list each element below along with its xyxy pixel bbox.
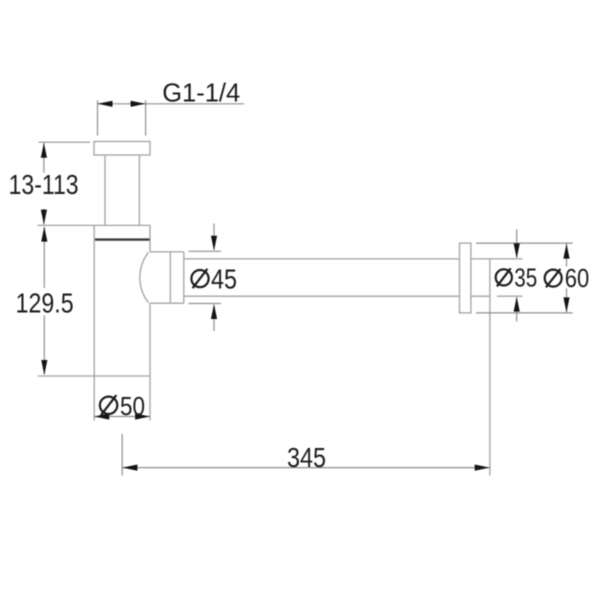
O60 bottom ext — [476, 312, 573, 314]
dark joint line on body — [95, 238, 150, 240]
pipe stub bottom right of flange — [471, 295, 490, 297]
O50 arrow right — [135, 413, 150, 419]
G1-1/4 arrow right — [131, 101, 146, 107]
G1-1/4 dim + leader — [98, 103, 245, 105]
129.5 vline upper — [43, 227, 45, 288]
O60 vline lower — [566, 289, 568, 313]
O45 top tick — [189, 250, 222, 252]
O60 arrow down — [563, 297, 569, 312]
O45 arrow down — [211, 236, 217, 251]
O35 symbol — [496, 269, 512, 285]
129.5 arrow up — [41, 227, 47, 242]
O35 vline lower — [516, 298, 518, 322]
inlet pipe left — [104, 155, 106, 225]
O35 vline upper — [516, 229, 518, 257]
svg-text:G1-1/4: G1-1/4 — [162, 77, 240, 107]
collar left — [169, 252, 171, 303]
O45 bottom tick — [189, 303, 222, 305]
pipe stub top right of flange + dim extension — [471, 258, 523, 260]
O50 symbol — [100, 397, 117, 414]
O35 arrow up — [514, 297, 520, 312]
O60 arrow up — [563, 244, 569, 259]
O35 arrow down — [514, 243, 520, 258]
O50 arrow left — [94, 413, 109, 419]
body bottom line — [38, 375, 151, 377]
13-113 vline upper — [43, 143, 45, 173]
345 arrow left — [122, 465, 137, 471]
svg-text:345: 345 — [287, 442, 326, 473]
svg-text:13-113: 13-113 — [9, 169, 79, 200]
body right side lower — [149, 303, 151, 420]
O45 arrow up — [211, 304, 217, 319]
inlet pipe right — [138, 155, 140, 225]
collar right — [183, 252, 185, 303]
G1-1/4 ext right — [145, 100, 147, 135]
G1-1/4 ext left — [97, 100, 99, 135]
13-113 arrow down — [41, 210, 47, 225]
O45 vline upper — [213, 224, 215, 250]
O50 dim line — [94, 416, 150, 418]
svg-text:35: 35 — [514, 263, 537, 293]
body left side — [93, 225, 95, 420]
13-113 vline lower — [43, 209, 45, 225]
svg-text:129.5: 129.5 — [16, 288, 74, 319]
pipe bottom — [184, 295, 460, 297]
345 left ext — [121, 434, 123, 476]
svg-text:60: 60 — [565, 263, 590, 293]
outlet bottom — [150, 302, 184, 304]
wall flange — [460, 243, 471, 313]
pipe top — [184, 258, 460, 260]
O45 symbol — [191, 270, 208, 287]
13-113 top ext — [39, 141, 91, 143]
top inlet flange — [94, 142, 150, 156]
svg-text:45: 45 — [211, 264, 237, 295]
G1-1/4 arrow left — [98, 101, 113, 107]
O60 symbol — [545, 270, 562, 287]
outlet top — [150, 251, 184, 253]
129.5 vline lower — [43, 316, 45, 375]
345 arrow right — [475, 465, 490, 471]
pipe end vertical + 345 extension — [489, 259, 491, 476]
body top line — [38, 224, 151, 226]
outlet dome arc — [140, 252, 149, 302]
345 dim line — [122, 467, 489, 469]
O60 top ext — [476, 242, 573, 244]
svg-text:50: 50 — [120, 391, 145, 421]
129.5 arrow down — [41, 360, 47, 375]
O60 vline upper — [566, 244, 568, 267]
body right side upper — [149, 225, 151, 252]
O35 bottom tick — [497, 295, 523, 297]
O45 vline lower — [213, 305, 215, 331]
13-113 arrow up — [41, 143, 47, 158]
